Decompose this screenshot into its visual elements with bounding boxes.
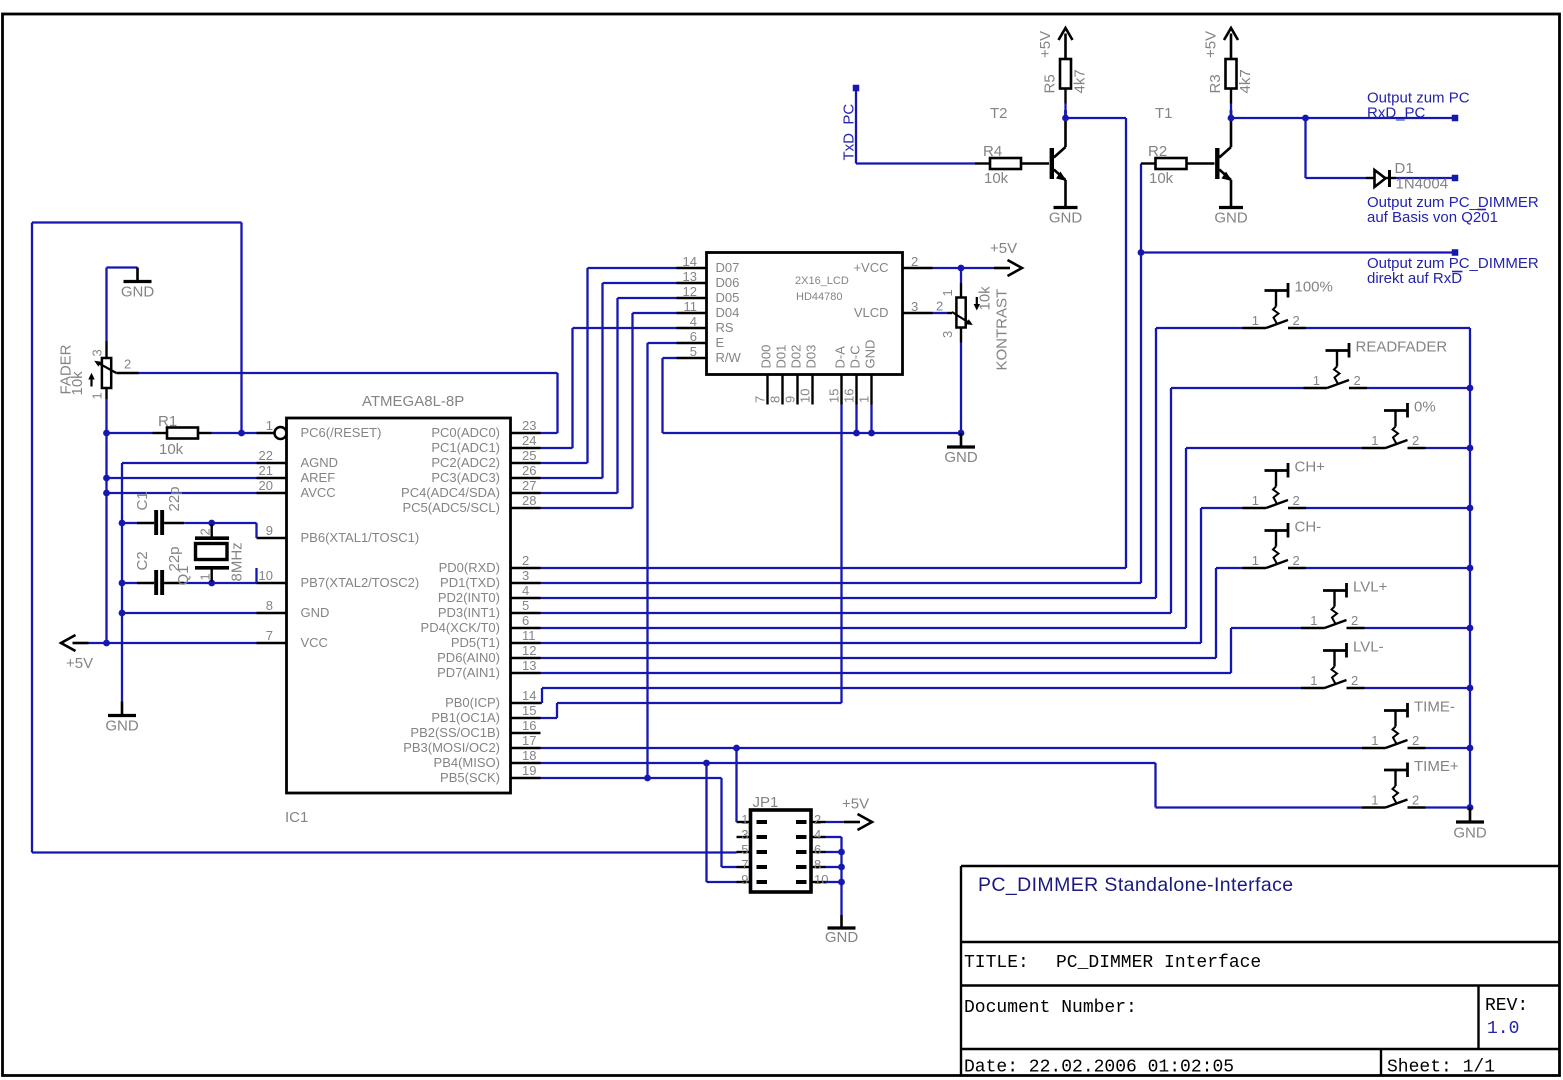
svg-text:LVL+: LVL+ <box>1353 579 1388 596</box>
svg-text:1: 1 <box>198 573 213 580</box>
svg-text:12: 12 <box>683 284 697 299</box>
svg-text:PD0(RXD): PD0(RXD) <box>439 560 500 575</box>
svg-text:9: 9 <box>741 872 748 887</box>
svg-text:13: 13 <box>522 658 536 673</box>
svg-text:1: 1 <box>1310 673 1317 688</box>
svg-text:RS: RS <box>716 320 734 335</box>
svg-text:10k: 10k <box>159 441 184 458</box>
svg-text:1: 1 <box>857 396 872 403</box>
svg-text:10: 10 <box>814 872 828 887</box>
svg-text:1: 1 <box>1310 613 1317 628</box>
svg-text:GND: GND <box>825 929 859 946</box>
svg-text:C2: C2 <box>134 551 151 570</box>
svg-text:2: 2 <box>1293 313 1300 328</box>
svg-text:1: 1 <box>1371 733 1378 748</box>
svg-text:10k: 10k <box>69 371 86 396</box>
svg-text:24: 24 <box>522 433 536 448</box>
svg-text:7: 7 <box>753 396 768 403</box>
svg-text:15: 15 <box>522 703 536 718</box>
svg-text:1: 1 <box>741 812 748 827</box>
svg-text:17: 17 <box>522 733 536 748</box>
svg-text:20: 20 <box>259 478 273 493</box>
svg-text:14: 14 <box>683 254 697 269</box>
svg-text:1: 1 <box>1313 373 1320 388</box>
svg-text:REV:: REV: <box>1485 996 1528 1016</box>
svg-text:R/W: R/W <box>716 350 742 365</box>
svg-text:7: 7 <box>741 857 748 872</box>
svg-text:28: 28 <box>522 493 536 508</box>
svg-text:auf Basis von Q201: auf Basis von Q201 <box>1367 209 1498 226</box>
svg-text:23: 23 <box>522 418 536 433</box>
svg-text:D06: D06 <box>716 275 740 290</box>
svg-text:13: 13 <box>683 269 697 284</box>
svg-text:2: 2 <box>1293 553 1300 568</box>
svg-text:direkt auf RxD: direkt auf RxD <box>1367 270 1462 287</box>
svg-text:GND: GND <box>301 605 330 620</box>
svg-text:D03: D03 <box>804 345 819 369</box>
svg-text:PC_DIMMER Standalone-Interface: PC_DIMMER Standalone-Interface <box>978 874 1293 896</box>
svg-text:AVCC: AVCC <box>301 485 336 500</box>
svg-text:5: 5 <box>522 598 529 613</box>
svg-text:2: 2 <box>936 299 943 314</box>
svg-text:2: 2 <box>1412 733 1419 748</box>
svg-text:15: 15 <box>827 389 842 403</box>
svg-text:1: 1 <box>1252 313 1259 328</box>
svg-text:T1: T1 <box>1155 105 1173 122</box>
svg-text:11: 11 <box>684 299 698 314</box>
svg-text:7: 7 <box>266 628 273 643</box>
svg-text:READFADER: READFADER <box>1356 339 1448 356</box>
svg-text:5: 5 <box>690 344 697 359</box>
svg-text:PC1(ADC1): PC1(ADC1) <box>431 440 500 455</box>
svg-text:RxD_PC: RxD_PC <box>1367 105 1426 122</box>
svg-text:PB5(SCK): PB5(SCK) <box>440 770 500 785</box>
svg-text:16: 16 <box>842 389 857 403</box>
svg-text:25: 25 <box>522 448 536 463</box>
svg-text:9: 9 <box>783 396 798 403</box>
svg-text:AREF: AREF <box>301 470 336 485</box>
svg-text:3: 3 <box>522 568 529 583</box>
svg-text:21: 21 <box>259 463 273 478</box>
svg-text:10: 10 <box>259 568 273 583</box>
svg-text:PD5(T1): PD5(T1) <box>451 635 500 650</box>
svg-text:1: 1 <box>266 418 273 433</box>
svg-text:9: 9 <box>266 523 273 538</box>
svg-text:GND: GND <box>944 449 978 466</box>
svg-text:1: 1 <box>940 289 955 296</box>
svg-text:GND: GND <box>121 284 155 301</box>
svg-text:10k: 10k <box>984 170 1009 187</box>
svg-text:18: 18 <box>522 748 536 763</box>
svg-text:19: 19 <box>522 763 536 778</box>
svg-text:PD6(AIN0): PD6(AIN0) <box>437 650 500 665</box>
svg-text:1: 1 <box>1252 493 1259 508</box>
svg-text:R3: R3 <box>1207 74 1224 93</box>
svg-text:2: 2 <box>1354 373 1361 388</box>
svg-text:PD3(INT1): PD3(INT1) <box>438 605 500 620</box>
svg-text:PD7(AIN1): PD7(AIN1) <box>437 665 500 680</box>
svg-text:PC2(ADC2): PC2(ADC2) <box>431 455 500 470</box>
svg-text:3: 3 <box>741 827 748 842</box>
svg-text:2: 2 <box>814 812 821 827</box>
svg-text:D04: D04 <box>716 305 740 320</box>
svg-text:1: 1 <box>1371 793 1378 808</box>
svg-text:C1: C1 <box>134 491 151 510</box>
svg-text:3: 3 <box>90 349 105 356</box>
svg-text:14: 14 <box>522 688 536 703</box>
svg-text:PB7(XTAL2/TOSC2): PB7(XTAL2/TOSC2) <box>301 575 420 590</box>
svg-text:1N4004: 1N4004 <box>1396 176 1449 193</box>
svg-text:PD1(TXD): PD1(TXD) <box>440 575 500 590</box>
svg-text:KONTRAST: KONTRAST <box>994 289 1011 371</box>
svg-text:+VCC: +VCC <box>853 260 888 275</box>
svg-text:R5: R5 <box>1042 74 1059 93</box>
svg-text:+5V: +5V <box>1203 31 1220 58</box>
svg-text:ATMEGA8L-8P: ATMEGA8L-8P <box>362 393 464 410</box>
svg-text:22p: 22p <box>166 486 183 511</box>
svg-text:T2: T2 <box>990 105 1008 122</box>
svg-text:GND: GND <box>105 718 139 735</box>
svg-text:8MHz: 8MHz <box>229 542 246 581</box>
svg-text:10: 10 <box>798 389 813 403</box>
svg-text:PD2(INT0): PD2(INT0) <box>438 590 500 605</box>
svg-text:TITLE:: TITLE: <box>964 953 1029 973</box>
svg-text:TIME-: TIME- <box>1414 699 1455 716</box>
svg-text:8: 8 <box>266 598 273 613</box>
svg-text:PB6(XTAL1/TOSC1): PB6(XTAL1/TOSC1) <box>301 530 420 545</box>
svg-text:PC4(ADC4/SDA): PC4(ADC4/SDA) <box>401 485 500 500</box>
svg-text:IC1: IC1 <box>285 809 308 826</box>
svg-text:4: 4 <box>690 314 697 329</box>
svg-text:2: 2 <box>1351 673 1358 688</box>
svg-text:1: 1 <box>90 392 105 399</box>
svg-text:LVL-: LVL- <box>1353 639 1384 656</box>
svg-text:VCC: VCC <box>301 635 328 650</box>
svg-text:4: 4 <box>814 827 821 842</box>
svg-text:Sheet: 1/1: Sheet: 1/1 <box>1387 1058 1495 1078</box>
svg-text:22: 22 <box>259 448 273 463</box>
svg-text:0%: 0% <box>1414 399 1436 416</box>
svg-text:GND: GND <box>1214 210 1248 227</box>
svg-text:D01: D01 <box>774 345 789 369</box>
svg-text:1: 1 <box>1371 433 1378 448</box>
svg-text:D00: D00 <box>759 345 774 369</box>
svg-text:3: 3 <box>911 299 918 314</box>
svg-text:8: 8 <box>768 396 783 403</box>
svg-text:100%: 100% <box>1295 279 1333 296</box>
svg-text:2: 2 <box>1412 793 1419 808</box>
svg-text:1: 1 <box>1252 553 1259 568</box>
svg-text:5: 5 <box>741 842 748 857</box>
svg-text:2: 2 <box>522 553 529 568</box>
svg-text:E: E <box>716 335 725 350</box>
svg-text:R2: R2 <box>1148 143 1167 160</box>
svg-text:GND: GND <box>1049 210 1083 227</box>
svg-text:10k: 10k <box>1149 170 1174 187</box>
svg-text:+5V: +5V <box>66 655 93 672</box>
svg-text:PD4(XCK/T0): PD4(XCK/T0) <box>421 620 500 635</box>
svg-text:TIME+: TIME+ <box>1414 758 1459 775</box>
svg-text:VLCD: VLCD <box>854 305 889 320</box>
svg-text:2X16_LCD: 2X16_LCD <box>795 275 849 287</box>
svg-text:3: 3 <box>940 331 955 338</box>
svg-text:27: 27 <box>522 478 536 493</box>
svg-text:+5V: +5V <box>842 796 869 813</box>
svg-text:+5V: +5V <box>1037 31 1054 58</box>
svg-text:4k7: 4k7 <box>1072 69 1089 93</box>
svg-text:AGND: AGND <box>301 455 339 470</box>
svg-text:D1: D1 <box>1395 160 1414 177</box>
svg-text:12: 12 <box>522 643 536 658</box>
svg-text:CH+: CH+ <box>1295 459 1326 476</box>
svg-text:CH-: CH- <box>1295 519 1322 536</box>
svg-text:16: 16 <box>522 718 536 733</box>
svg-text:JP1: JP1 <box>753 794 779 811</box>
svg-text:6: 6 <box>690 329 697 344</box>
svg-text:PB0(ICP): PB0(ICP) <box>445 695 500 710</box>
svg-text:D-A: D-A <box>833 346 848 369</box>
svg-text:PB1(OC1A): PB1(OC1A) <box>431 710 500 725</box>
svg-text:D07: D07 <box>716 260 740 275</box>
svg-text:PC0(ADC0): PC0(ADC0) <box>431 425 500 440</box>
svg-text:6: 6 <box>522 613 529 628</box>
svg-text:6: 6 <box>814 842 821 857</box>
svg-text:PC3(ADC3): PC3(ADC3) <box>431 470 500 485</box>
svg-text:PC_DIMMER Interface: PC_DIMMER Interface <box>1056 953 1261 973</box>
svg-text:1.0: 1.0 <box>1487 1019 1519 1039</box>
svg-text:R1: R1 <box>158 413 177 430</box>
svg-text:26: 26 <box>522 463 536 478</box>
svg-text:D02: D02 <box>789 345 804 369</box>
svg-text:2: 2 <box>1412 433 1419 448</box>
svg-text:Document Number:: Document Number: <box>964 998 1137 1018</box>
svg-text:2: 2 <box>1351 613 1358 628</box>
svg-text:10k: 10k <box>977 286 994 311</box>
svg-text:2: 2 <box>1293 493 1300 508</box>
svg-text:D05: D05 <box>716 290 740 305</box>
svg-text:GND: GND <box>863 340 878 369</box>
svg-text:+5V: +5V <box>990 240 1017 257</box>
svg-text:PB2(SS/OC1B): PB2(SS/OC1B) <box>410 725 500 740</box>
svg-text:PB4(MISO): PB4(MISO) <box>434 755 500 770</box>
svg-text:Date: 22.02.2006 01:02:05: Date: 22.02.2006 01:02:05 <box>964 1058 1234 1078</box>
svg-text:PC6(/RESET): PC6(/RESET) <box>301 425 382 440</box>
svg-text:PC5(ADC5/SCL): PC5(ADC5/SCL) <box>402 500 500 515</box>
svg-text:2: 2 <box>198 528 213 535</box>
svg-text:2: 2 <box>911 254 918 269</box>
svg-text:Q1: Q1 <box>175 565 192 585</box>
svg-text:R4: R4 <box>983 143 1002 160</box>
svg-text:GND: GND <box>1453 825 1487 842</box>
svg-text:4: 4 <box>522 583 529 598</box>
svg-text:HD44780: HD44780 <box>796 291 842 303</box>
svg-text:8: 8 <box>814 857 821 872</box>
svg-text:2: 2 <box>124 357 131 372</box>
svg-text:11: 11 <box>522 628 536 643</box>
svg-text:D-C: D-C <box>848 345 863 368</box>
svg-text:PB3(MOSI/OC2): PB3(MOSI/OC2) <box>403 740 500 755</box>
svg-text:4k7: 4k7 <box>1237 69 1254 93</box>
